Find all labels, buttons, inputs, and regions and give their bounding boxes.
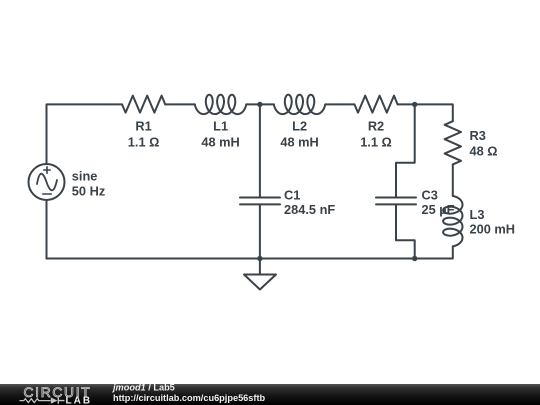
svg-text:L1: L1 (213, 119, 228, 134)
voltage source V1 minus sign (43, 193, 51, 195)
ground stub (259, 259, 261, 275)
voltage source V1 plus sign (44, 167, 50, 173)
svg-text:C1: C1 (284, 187, 300, 202)
svg-text:1.1 Ω: 1.1 Ω (128, 134, 160, 149)
svg-text:25 µF: 25 µF (422, 202, 455, 217)
node C junction dot (412, 256, 417, 261)
svg-text:R1: R1 (135, 119, 151, 134)
wire L2 to R2 (325, 103, 354, 105)
wire C1 bottom to ground node (259, 204, 261, 258)
svg-text:C3: C3 (422, 187, 438, 202)
node A junction dot (257, 102, 262, 107)
svg-text:L2: L2 (292, 119, 307, 134)
capacitor C3 top plate (376, 197, 416, 199)
inductor L2 (274, 95, 326, 114)
wire node B to right branch corner (415, 104, 453, 121)
wire node A down to C1 (259, 104, 261, 197)
capacitor C1 bottom plate (240, 203, 280, 205)
ground node junction dot (257, 256, 262, 261)
svg-text:200 mH: 200 mH (470, 221, 516, 236)
resistor R2 (354, 96, 397, 113)
wire L3 to bottom right corner (415, 246, 453, 258)
voltage source V1 circle (29, 164, 65, 200)
ground symbol (244, 275, 276, 290)
voltage source V1 sine symbol (37, 174, 57, 191)
svg-text:LAB: LAB (66, 395, 93, 405)
footer bar (0, 384, 540, 405)
svg-text:50 Hz: 50 Hz (72, 183, 105, 198)
svg-text:284.5 nF: 284.5 nF (284, 202, 335, 217)
wire R2 to node B (398, 103, 415, 105)
resistor R1 (122, 96, 165, 113)
logo diode symbol (51, 397, 58, 403)
wire source top to R1 (47, 104, 123, 164)
svg-text:1.1 Ω: 1.1 Ω (360, 134, 392, 149)
svg-text:http://circuitlab.com/cu6pjpe5: http://circuitlab.com/cu6pjpe56sftb (113, 393, 266, 403)
wire R3 to L3 (452, 164, 454, 196)
svg-text:48 Ω: 48 Ω (470, 144, 498, 159)
capacitor C1 top plate (240, 197, 280, 199)
wire source bottom (46, 200, 48, 259)
resistor R3 (445, 121, 461, 164)
wire R1 to L1 (165, 103, 195, 105)
bottom wire (47, 258, 415, 260)
svg-text:48 mH: 48 mH (201, 134, 239, 149)
capacitor C3 bottom plate (376, 203, 416, 205)
svg-text:R3: R3 (470, 128, 486, 143)
logo resistor zigzag (20, 399, 51, 403)
svg-text:sine: sine (72, 168, 98, 183)
wire L1 to node A (246, 103, 273, 105)
wire C3 bottom to node C (396, 204, 415, 258)
inductor L1 (195, 95, 247, 114)
svg-text:L3: L3 (470, 207, 485, 222)
wire node B down (C3 branch top) (396, 104, 415, 197)
inductor L3 (443, 196, 462, 247)
node B junction dot (412, 102, 417, 107)
svg-text:R2: R2 (368, 119, 384, 134)
svg-text:jmood1 / Lab5: jmood1 / Lab5 (112, 384, 175, 392)
svg-text:48 mH: 48 mH (280, 134, 318, 149)
